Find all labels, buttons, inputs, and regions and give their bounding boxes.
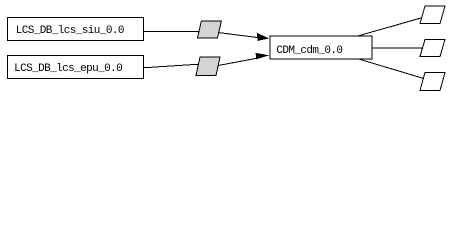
gray input connector parallelogram 2	[196, 57, 220, 76]
box LCS_DB_lcs_siu_0.0	[8, 18, 144, 41]
svg-text:LCS_DB_lcs_siu_0.0: LCS_DB_lcs_siu_0.0	[16, 25, 124, 37]
wire from CDM box to output connector 1	[357, 18, 422, 37]
wire from input connector 2 to CDM box	[215, 58, 257, 66]
arrowhead into CDM (upper)	[257, 33, 270, 41]
wire from LCS_DB_lcs_epu box to input connector 2	[143, 64, 201, 68]
white output connector parallelogram 3	[420, 73, 445, 91]
white output connector parallelogram 2	[420, 39, 445, 56]
box LCS_DB_lcs_epu_0.0	[8, 56, 144, 79]
wire from CDM box to output connector 2	[372, 47, 424, 49]
svg-text:CDM_cdm_0.0: CDM_cdm_0.0	[276, 45, 342, 57]
svg-text:LCS_DB_lcs_epu_0.0: LCS_DB_lcs_epu_0.0	[14, 63, 122, 75]
wire from input connector 1 to CDM box	[214, 32, 258, 38]
box CDM_cdm_0.0	[270, 36, 372, 59]
white output connector parallelogram 1	[420, 6, 445, 24]
wire from CDM box to output connector 3	[357, 59, 424, 79]
arrowhead into CDM (lower)	[256, 53, 270, 60]
gray input connector parallelogram 1	[197, 21, 221, 38]
wire from LCS_DB_lcs_siu box to input connector 1	[143, 31, 202, 33]
